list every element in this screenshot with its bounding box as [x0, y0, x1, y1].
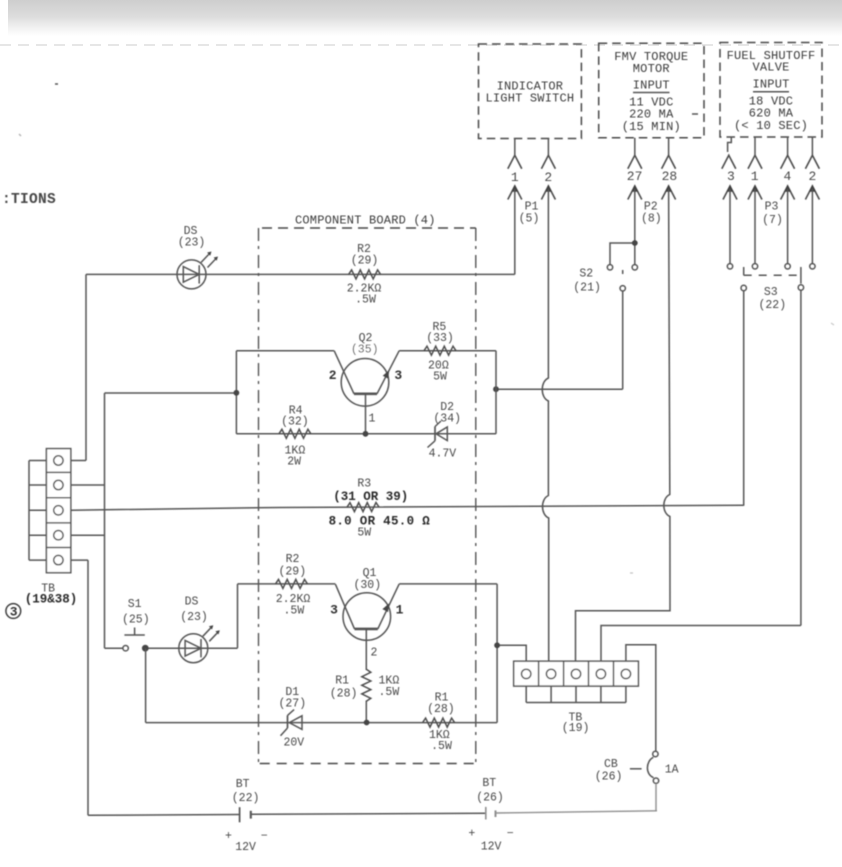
- svg-text:(19): (19): [562, 722, 590, 735]
- svg-text:+: +: [468, 827, 475, 840]
- svg-text:VALVE: VALVE: [752, 61, 789, 75]
- svg-text:+: +: [225, 830, 232, 843]
- svg-text:1: 1: [751, 169, 759, 184]
- svg-text:1: 1: [511, 170, 519, 185]
- svg-text:(33): (33): [426, 332, 454, 345]
- svg-text:2: 2: [808, 169, 816, 184]
- svg-text:CB: CB: [604, 758, 618, 771]
- svg-text:1: 1: [396, 602, 404, 617]
- svg-text:(28): (28): [330, 688, 358, 701]
- svg-text:3: 3: [330, 602, 338, 617]
- svg-text:3: 3: [727, 169, 735, 184]
- svg-text:BT: BT: [482, 777, 496, 790]
- svg-text:5W: 5W: [357, 527, 371, 540]
- svg-text:(21): (21): [573, 281, 601, 294]
- svg-text:−: −: [507, 827, 514, 840]
- svg-text:(22): (22): [758, 299, 786, 312]
- svg-text:R1: R1: [335, 674, 349, 687]
- svg-text:(26): (26): [595, 771, 623, 784]
- svg-text:(8): (8): [641, 213, 662, 226]
- svg-text:(15 MIN): (15 MIN): [622, 120, 681, 134]
- svg-text:COMPONENT BOARD (4): COMPONENT BOARD (4): [295, 213, 436, 227]
- svg-text:20V: 20V: [283, 737, 304, 750]
- svg-text:(28): (28): [427, 703, 455, 716]
- svg-text:(30): (30): [353, 579, 381, 592]
- svg-text:2: 2: [371, 647, 378, 660]
- svg-text:(23): (23): [178, 236, 206, 249]
- svg-text:8.0 OR 45.0 Ω: 8.0 OR 45.0 Ω: [329, 515, 431, 529]
- svg-text:12V: 12V: [235, 841, 256, 854]
- svg-text:4: 4: [783, 169, 791, 184]
- svg-text:.5W: .5W: [431, 740, 452, 753]
- svg-text:2: 2: [544, 170, 552, 185]
- svg-text:LIGHT SWITCH: LIGHT SWITCH: [485, 92, 574, 106]
- svg-text:4.7V: 4.7V: [429, 448, 457, 461]
- svg-text:(32): (32): [281, 416, 309, 429]
- svg-text:MOTOR: MOTOR: [633, 62, 670, 76]
- svg-text:S2: S2: [579, 267, 593, 280]
- svg-text:(35): (35): [351, 343, 379, 356]
- svg-text:(29): (29): [278, 566, 306, 579]
- svg-text:(34): (34): [433, 412, 461, 425]
- svg-text:DS: DS: [185, 596, 199, 609]
- svg-text:R3: R3: [357, 478, 371, 491]
- svg-text:BT: BT: [236, 778, 250, 791]
- svg-text:1A: 1A: [665, 764, 679, 777]
- svg-text:.5W: .5W: [379, 686, 400, 699]
- svg-text:(31 OR 39): (31 OR 39): [333, 490, 408, 504]
- svg-text:P3: P3: [765, 201, 779, 214]
- svg-text:(22): (22): [232, 792, 260, 805]
- svg-text:(25): (25): [122, 614, 150, 627]
- svg-text:12V: 12V: [481, 840, 502, 853]
- svg-text:(23): (23): [180, 611, 208, 624]
- svg-text:(5): (5): [519, 213, 540, 226]
- svg-text:(< 10 SEC): (< 10 SEC): [734, 119, 808, 133]
- svg-text:INPUT: INPUT: [633, 79, 670, 93]
- svg-text:2: 2: [329, 368, 337, 383]
- svg-text:5W: 5W: [433, 371, 447, 384]
- svg-text:28: 28: [662, 169, 678, 184]
- svg-text:.5W: .5W: [355, 294, 376, 307]
- svg-text:27: 27: [627, 169, 643, 184]
- svg-text:INPUT: INPUT: [752, 78, 789, 92]
- svg-text:1: 1: [368, 413, 375, 426]
- svg-text:3: 3: [10, 604, 18, 619]
- svg-text:(29): (29): [351, 254, 379, 267]
- svg-text:−: −: [261, 830, 268, 843]
- svg-text:(26): (26): [476, 791, 504, 804]
- svg-text:(19&38): (19&38): [25, 592, 78, 606]
- svg-text:S3: S3: [764, 286, 778, 299]
- svg-text:(7): (7): [762, 214, 783, 227]
- svg-text:.5W: .5W: [284, 604, 305, 617]
- svg-text::TIONS: :TIONS: [2, 192, 56, 208]
- svg-text:(27): (27): [278, 697, 306, 710]
- svg-text:3: 3: [394, 368, 402, 383]
- svg-text:R2: R2: [286, 553, 300, 566]
- svg-text:S1: S1: [128, 598, 142, 611]
- svg-text:2W: 2W: [287, 456, 301, 469]
